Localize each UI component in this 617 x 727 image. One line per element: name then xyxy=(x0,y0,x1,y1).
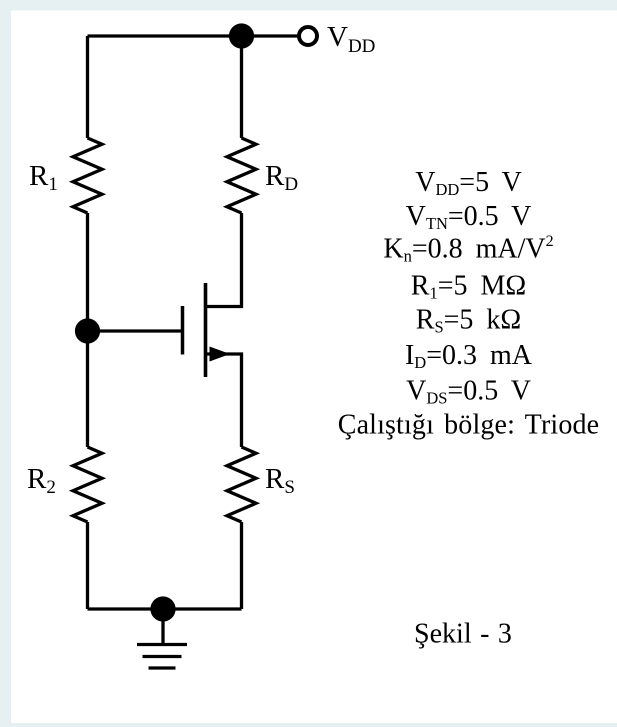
node junction dot bottom xyxy=(150,596,175,621)
wire drain vertical xyxy=(206,213,242,307)
transistor M1 gate bar xyxy=(181,306,185,355)
svg-text:VDS=0.5 V: VDS=0.5 V xyxy=(406,375,531,407)
transistor M1 source arrow xyxy=(210,347,231,362)
ground symbol xyxy=(137,645,187,669)
svg-text:VDD=5 V: VDD=5 V xyxy=(415,167,522,199)
wire bottom rail xyxy=(88,607,242,610)
wire RS to bottom rail xyxy=(240,522,243,609)
svg-text:VTN=0.5 V: VTN=0.5 V xyxy=(406,201,532,233)
node junction dot top xyxy=(229,23,254,48)
resistor RD xyxy=(227,138,256,213)
wire gate xyxy=(88,329,183,332)
wire source vertical xyxy=(206,354,242,447)
wire ground stub xyxy=(161,609,164,645)
terminal VDD open circle xyxy=(299,27,317,45)
svg-text:R1=5 MΩ: R1=5 MΩ xyxy=(411,271,526,303)
wire top rail to VDD terminal xyxy=(242,34,298,37)
node junction dot gate xyxy=(75,318,100,343)
resistor R2 xyxy=(73,447,102,522)
wire left branch upper xyxy=(86,36,89,138)
wire left branch middle xyxy=(86,213,89,447)
wire left branch lower xyxy=(86,522,89,609)
svg-text:RS=5 kΩ: RS=5 kΩ xyxy=(416,305,521,337)
svg-text:Şekil - 3: Şekil - 3 xyxy=(414,619,512,650)
wire right branch upper xyxy=(240,36,243,138)
wire top rail xyxy=(88,34,242,37)
transistor M1 channel bar xyxy=(204,283,208,377)
svg-text:Çalıştığı bölge: Triode: Çalıştığı bölge: Triode xyxy=(338,410,599,441)
resistor RS xyxy=(227,447,256,522)
resistor R1 xyxy=(73,138,102,213)
